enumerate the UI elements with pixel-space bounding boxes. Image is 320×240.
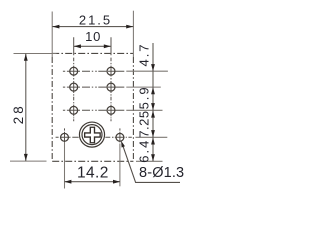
dimension 21.5 arrow left <box>52 25 59 29</box>
hole H2 row1 right <box>107 67 115 75</box>
dimension 10 line <box>74 45 111 47</box>
centerline row 2 <box>63 86 124 88</box>
component outline left edge <box>51 57 53 161</box>
mounting hole inner circle <box>82 125 102 145</box>
right chain dimension line <box>152 43 154 161</box>
dimension 21.5 extension line left <box>51 12 53 58</box>
dimension 28 arrow bottom <box>24 154 28 161</box>
dimension 28 extension line top <box>14 53 57 55</box>
component outline right edge <box>132 57 134 161</box>
dimension 28 line <box>25 54 27 162</box>
svg-text:7.25: 7.25 <box>137 110 152 137</box>
dimension 14.2 line <box>65 181 120 183</box>
hole H5 row3 left <box>70 106 78 114</box>
dimension 28 extension line bottom <box>10 160 47 162</box>
centerline column 2 <box>110 37 112 121</box>
leader arrow <box>121 141 125 148</box>
svg-text:10: 10 <box>85 29 101 44</box>
svg-text:21.5: 21.5 <box>79 12 112 27</box>
right extension line row3 <box>126 109 162 111</box>
dimension 10 arrow left <box>74 44 81 48</box>
centerline row 1 <box>63 70 124 72</box>
right extension line row4 <box>136 136 168 138</box>
component outline top edge <box>52 52 133 54</box>
component outline bottom edge <box>52 160 133 162</box>
dimension 14.2 extension line right <box>119 144 121 187</box>
hole H6 row3 right <box>107 106 115 114</box>
dimension 21.5 extension line right <box>132 11 134 57</box>
svg-text:14.2: 14.2 <box>77 165 109 182</box>
dimension 28 arrow top <box>24 54 28 61</box>
right extension line row1 <box>126 70 168 72</box>
chain arrow at row2 up <box>151 87 155 94</box>
mounting hole cross <box>85 127 101 143</box>
svg-text:4.7: 4.7 <box>137 42 152 66</box>
hole H4 row2 right <box>107 83 115 91</box>
dimension 14.2 extension line left <box>64 142 66 188</box>
centerline bottom-right hole vertical <box>119 128 121 142</box>
mounting hole outer circle <box>79 122 104 147</box>
centerline row 3 <box>63 109 124 111</box>
leader line for 8-O1.3 <box>122 143 180 182</box>
dimension 21.5 arrow right <box>126 25 133 29</box>
chain arrow at row1 down <box>151 64 155 71</box>
dimension 21.5 line <box>52 26 133 28</box>
dimension 14.2 arrow right <box>113 180 120 184</box>
right extension line bottom edge <box>136 160 163 162</box>
chain arrow at row4 down <box>151 130 155 137</box>
svg-text:5.9: 5.9 <box>137 85 152 109</box>
hole H1 row1 left <box>70 67 78 75</box>
chain arrow at row3 up <box>151 111 155 118</box>
svg-text:6.4: 6.4 <box>137 139 152 163</box>
svg-text:28: 28 <box>11 103 26 124</box>
right extension line row2 <box>126 86 161 88</box>
svg-text:8-Ø1.3: 8-Ø1.3 <box>139 165 184 181</box>
dimension 14.2 arrow left <box>64 180 71 184</box>
hole H7 bottom left <box>61 133 69 141</box>
centerline row 4 <box>56 136 132 138</box>
centerline column 1 <box>73 37 75 121</box>
chain arrow at row4 up <box>151 138 155 145</box>
chain arrow at row3 down <box>151 103 155 110</box>
hole H3 row2 left <box>70 83 78 91</box>
dimension 10 arrow right <box>104 44 111 48</box>
centerline bottom-left hole vertical <box>64 128 66 142</box>
hole H8 bottom right <box>116 133 124 141</box>
chain arrow at bottom edge down <box>151 154 155 161</box>
